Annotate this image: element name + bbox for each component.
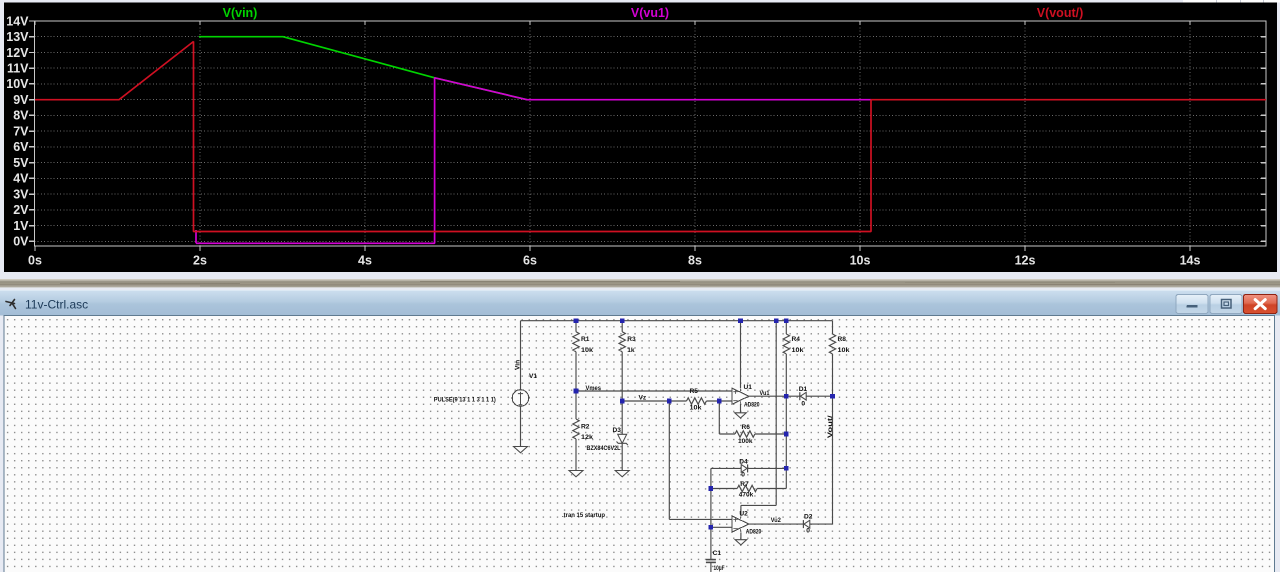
svg-text:V(vin): V(vin): [223, 6, 258, 20]
svg-text:5V: 5V: [13, 156, 29, 170]
svg-text:4s: 4s: [358, 254, 372, 268]
svg-text:Vu1: Vu1: [760, 390, 770, 397]
svg-text:Vin: Vin: [514, 360, 521, 370]
svg-text:7V: 7V: [13, 124, 29, 138]
svg-text:R3: R3: [627, 336, 636, 343]
svg-text:12s: 12s: [1015, 254, 1036, 268]
svg-text:Vout/: Vout/: [827, 415, 834, 438]
svg-text:R1: R1: [581, 336, 590, 343]
svg-text:V1: V1: [529, 373, 537, 380]
svg-text:11V: 11V: [7, 62, 29, 76]
svg-text:10µF: 10µF: [714, 565, 725, 572]
svg-text:8s: 8s: [688, 254, 702, 268]
svg-text:8V: 8V: [13, 109, 29, 123]
svg-text:0V: 0V: [13, 235, 29, 249]
svg-text:3V: 3V: [13, 187, 29, 201]
svg-text:100k: 100k: [738, 438, 753, 445]
svg-text:V(vout/): V(vout/): [1037, 6, 1084, 20]
svg-text:2s: 2s: [193, 254, 207, 268]
svg-text:4V: 4V: [13, 172, 29, 186]
svg-text:0: 0: [741, 472, 745, 479]
svg-text:D3: D3: [613, 427, 622, 434]
svg-text:11v-Ctrl.asc: 11v-Ctrl.asc: [25, 298, 88, 312]
svg-text:6s: 6s: [523, 254, 537, 268]
svg-text:1V: 1V: [13, 219, 29, 233]
svg-text:0: 0: [806, 527, 810, 534]
svg-text:PULSE(9 13 1 1 3 1 1 1): PULSE(9 13 1 1 3 1 1 1): [434, 396, 496, 403]
svg-text:13V: 13V: [6, 30, 29, 44]
svg-text:.tran 15 startup: .tran 15 startup: [562, 512, 605, 519]
svg-text:U1: U1: [744, 384, 753, 391]
svg-text:10s: 10s: [850, 254, 871, 268]
svg-text:R5: R5: [690, 388, 699, 395]
svg-text:Vz: Vz: [639, 394, 647, 401]
svg-text:10k: 10k: [581, 347, 593, 354]
svg-text:R8: R8: [838, 336, 847, 343]
svg-text:R2: R2: [581, 424, 590, 431]
svg-text:V(vu1): V(vu1): [631, 6, 669, 20]
svg-text:1k: 1k: [627, 347, 635, 354]
svg-text:0: 0: [801, 400, 805, 407]
svg-text:10k: 10k: [792, 347, 804, 354]
svg-text:10k: 10k: [690, 405, 702, 412]
svg-text:Vmes: Vmes: [586, 385, 602, 392]
svg-text:C1: C1: [713, 550, 722, 557]
svg-text:9V: 9V: [13, 93, 29, 107]
svg-text:D2: D2: [804, 514, 813, 521]
svg-text:R7: R7: [740, 481, 749, 488]
svg-text:Vu2: Vu2: [771, 517, 781, 524]
svg-text:12k: 12k: [581, 434, 593, 441]
svg-text:BZX84C6V2L: BZX84C6V2L: [587, 445, 621, 452]
svg-text:12V: 12V: [6, 46, 29, 60]
svg-text:0s: 0s: [28, 254, 42, 268]
svg-text:10k: 10k: [838, 347, 850, 354]
svg-text:2V: 2V: [13, 203, 29, 217]
svg-text:10V: 10V: [6, 77, 29, 91]
svg-text:R4: R4: [792, 336, 801, 343]
svg-text:AD820: AD820: [746, 528, 762, 535]
svg-text:14V: 14V: [6, 14, 29, 28]
svg-text:6V: 6V: [13, 140, 29, 154]
svg-text:U2: U2: [739, 511, 748, 518]
svg-text:14s: 14s: [1180, 254, 1201, 268]
svg-text:R6: R6: [742, 424, 751, 431]
svg-text:AD820: AD820: [744, 402, 760, 409]
svg-text:470k: 470k: [739, 491, 754, 498]
svg-text:D1: D1: [799, 386, 808, 393]
svg-text:D4: D4: [739, 458, 748, 465]
